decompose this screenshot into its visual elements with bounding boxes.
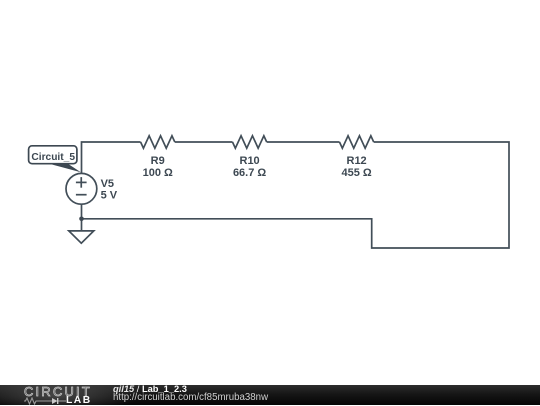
svg-text:455 Ω: 455 Ω xyxy=(341,167,371,179)
svg-text:5 V: 5 V xyxy=(101,190,118,202)
svg-text:R9: R9 xyxy=(151,155,165,167)
svg-text:R10: R10 xyxy=(240,155,260,167)
svg-text:Circuit_5: Circuit_5 xyxy=(31,152,75,163)
svg-text:V5: V5 xyxy=(101,178,114,190)
svg-text:66.7 Ω: 66.7 Ω xyxy=(233,167,266,179)
svg-text:R12: R12 xyxy=(347,155,367,167)
svg-text:100 Ω: 100 Ω xyxy=(143,167,173,179)
